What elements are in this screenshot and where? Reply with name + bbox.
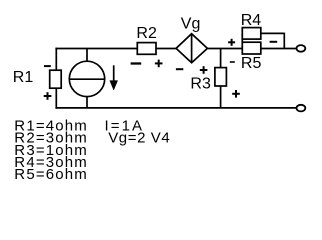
wire R3 top stub xyxy=(220,49,222,68)
polarity R2 minus xyxy=(131,62,142,64)
terminal top xyxy=(297,45,306,52)
polarity R2 plus xyxy=(155,60,163,68)
wire R5 to top terminal xyxy=(261,48,297,50)
svg-text:R2: R2 xyxy=(136,25,157,42)
svg-text:Vg=2 V4: Vg=2 V4 xyxy=(108,130,170,147)
current arrow of source I xyxy=(110,65,118,90)
resistor R1 xyxy=(50,70,62,88)
wire R4 right riser xyxy=(283,33,285,49)
resistor R5 xyxy=(242,42,260,54)
dependent voltage source Vg xyxy=(176,34,207,63)
polarity R1 plus xyxy=(44,92,52,100)
current source I xyxy=(69,61,104,96)
polarity Vg plus xyxy=(200,66,208,74)
wire R2 to Vg xyxy=(156,48,176,50)
polarity Vg minus xyxy=(176,68,183,70)
wire left vertical upper xyxy=(55,48,57,70)
svg-text:R1: R1 xyxy=(13,69,34,86)
resistor R4 xyxy=(242,28,260,39)
wire R4 left riser xyxy=(241,33,243,48)
wire left vertical lower xyxy=(55,88,57,109)
resistor R3 xyxy=(215,68,227,86)
polarity R3 minus xyxy=(230,61,235,63)
polarity R1 minus xyxy=(44,65,51,67)
wire R4 right horizontal xyxy=(261,32,285,34)
wire top-left horizontal xyxy=(55,48,137,50)
svg-text:R5: R5 xyxy=(241,55,262,72)
wire current-source top stub xyxy=(86,49,88,62)
svg-text:R3: R3 xyxy=(190,76,211,93)
resistor R2 xyxy=(137,43,156,55)
wire R3 bottom stub xyxy=(220,86,222,108)
polarity R4 plus xyxy=(228,39,235,46)
polarity R4 minus xyxy=(270,41,278,43)
polarity R3 plus xyxy=(232,90,240,98)
svg-text:R4: R4 xyxy=(241,12,262,29)
terminal bottom xyxy=(297,105,306,112)
wire current-source bottom stub xyxy=(86,97,88,108)
wire bottom horizontal xyxy=(55,107,296,109)
svg-text:Vg: Vg xyxy=(181,16,201,33)
wire Vg to R5 block xyxy=(207,48,242,50)
